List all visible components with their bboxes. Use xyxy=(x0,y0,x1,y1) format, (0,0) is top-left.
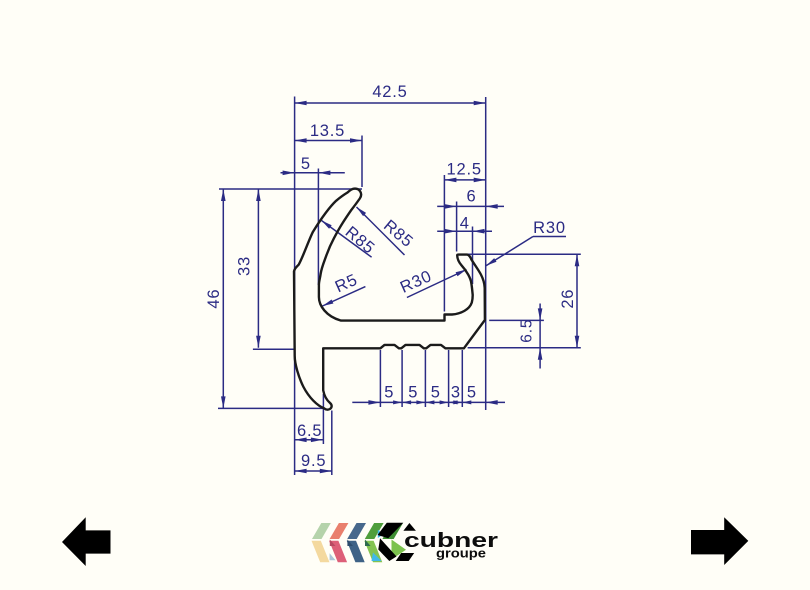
svg-text:33: 33 xyxy=(235,256,253,276)
svg-text:4: 4 xyxy=(460,215,470,233)
svg-text:13.5: 13.5 xyxy=(310,122,345,140)
svg-text:3: 3 xyxy=(451,383,461,401)
svg-text:6: 6 xyxy=(467,188,477,206)
svg-text:5: 5 xyxy=(384,383,394,401)
svg-text:12.5: 12.5 xyxy=(447,161,482,179)
svg-text:R85: R85 xyxy=(342,223,379,258)
svg-text:26: 26 xyxy=(559,289,577,309)
svg-text:5: 5 xyxy=(301,155,311,173)
svg-text:R85: R85 xyxy=(380,217,417,252)
svg-text:R5: R5 xyxy=(332,271,360,297)
svg-text:6.5: 6.5 xyxy=(518,319,535,343)
svg-text:46: 46 xyxy=(205,289,223,309)
svg-text:groupe: groupe xyxy=(436,547,486,561)
svg-text:R30: R30 xyxy=(533,219,566,237)
svg-text:5: 5 xyxy=(408,383,418,401)
svg-text:5: 5 xyxy=(431,383,441,401)
svg-text:9.5: 9.5 xyxy=(301,452,326,470)
svg-text:42.5: 42.5 xyxy=(372,83,407,101)
svg-text:5: 5 xyxy=(467,383,477,401)
svg-text:6.5: 6.5 xyxy=(297,422,322,440)
